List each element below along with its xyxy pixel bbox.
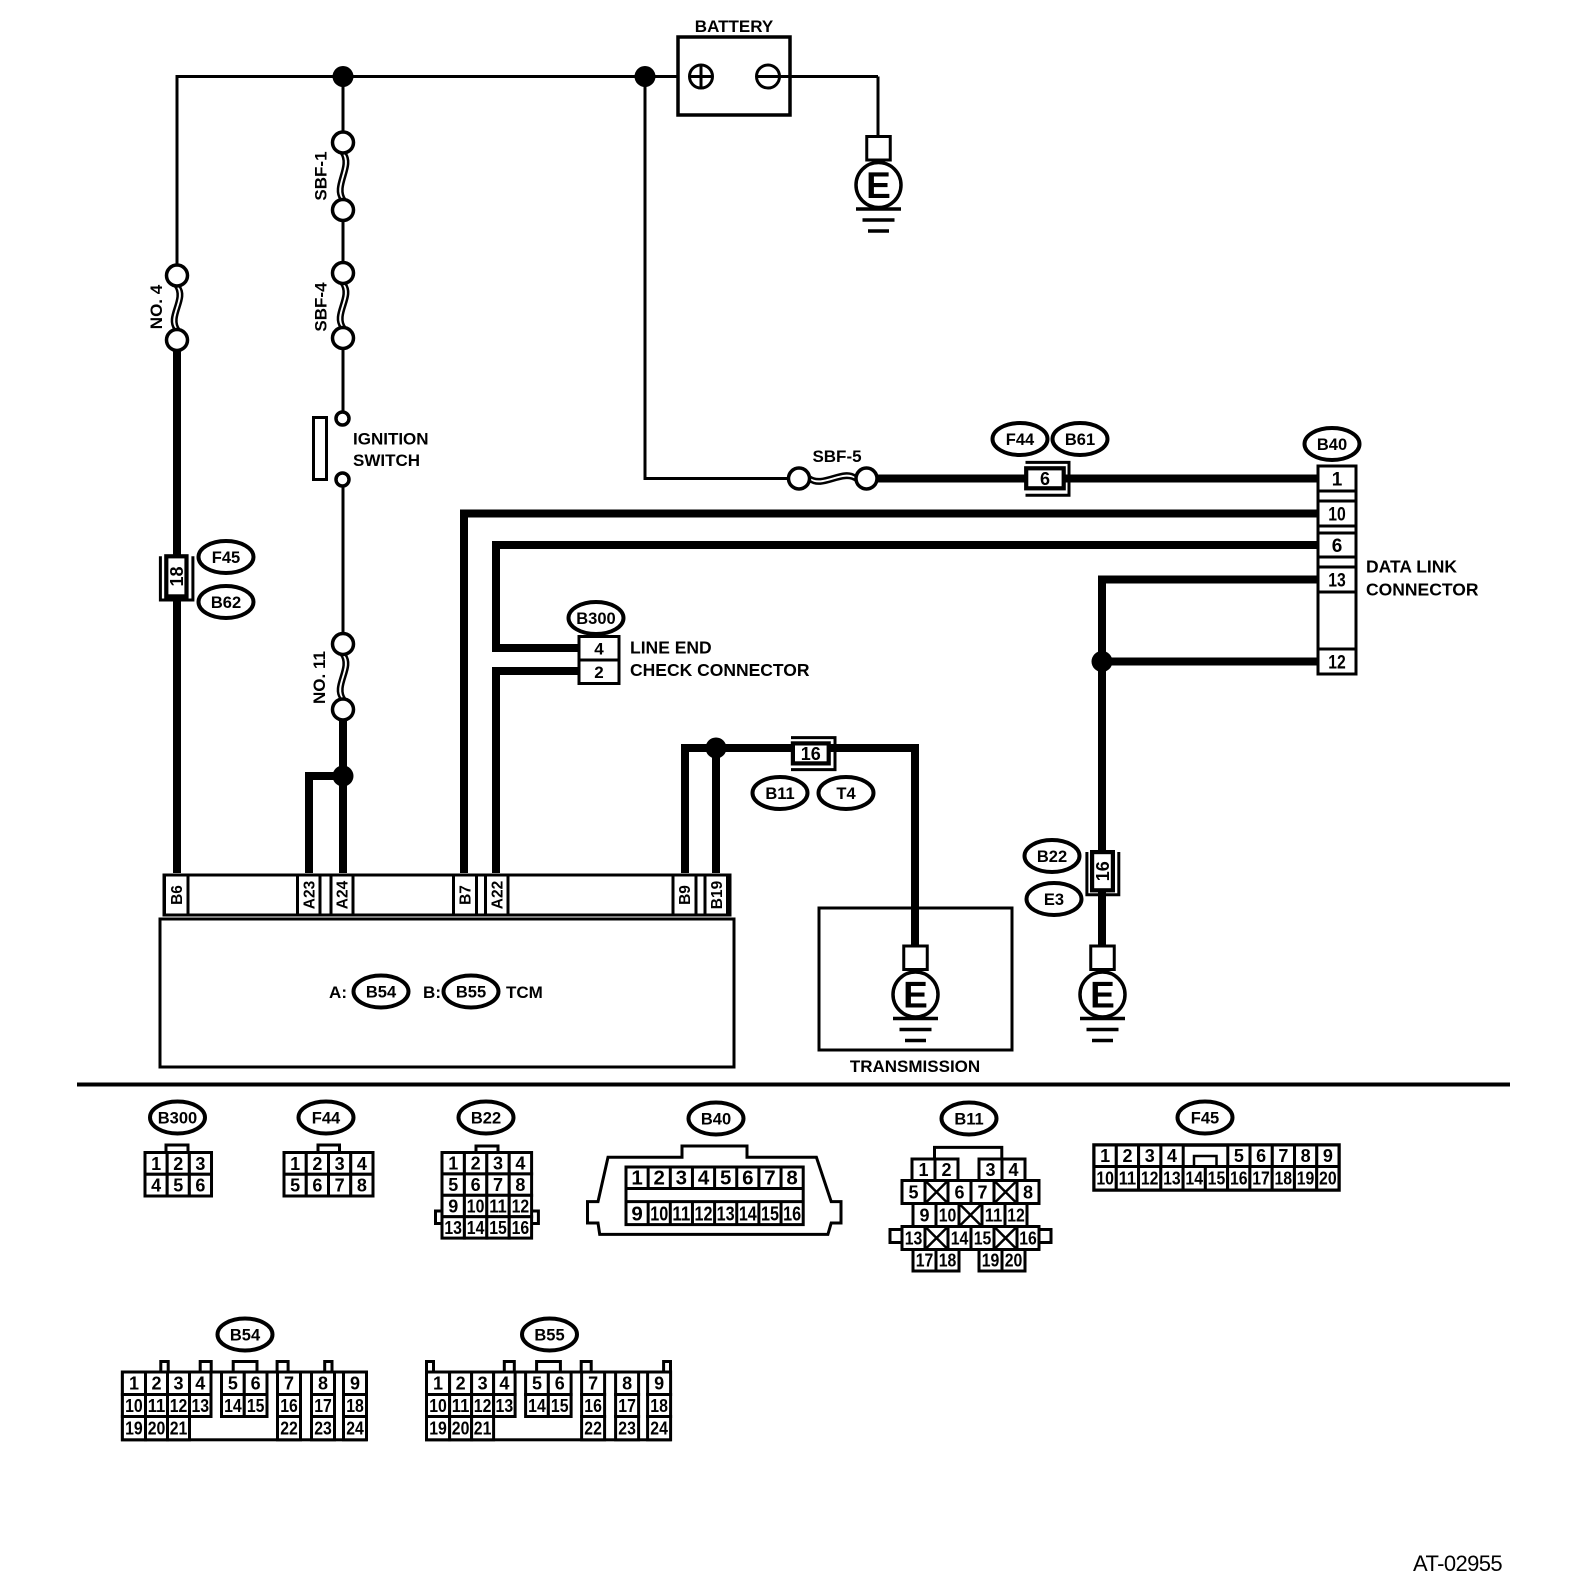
label B11 pinout	[942, 1103, 997, 1135]
svg-text:2: 2	[1122, 1146, 1132, 1166]
svg-text:B9: B9	[677, 885, 694, 905]
junction node at ignition branch	[333, 66, 354, 87]
svg-text:B22: B22	[1037, 848, 1067, 866]
svg-text:17: 17	[1252, 1169, 1270, 1189]
fuse SBF-5	[789, 447, 878, 489]
label B300	[569, 602, 624, 634]
svg-text:TCM: TCM	[506, 983, 543, 1002]
svg-text:A23: A23	[302, 880, 319, 909]
svg-text:14: 14	[1185, 1169, 1203, 1189]
svg-text:10: 10	[1096, 1169, 1114, 1189]
svg-text:5: 5	[720, 1167, 731, 1190]
svg-text:B40: B40	[1317, 436, 1347, 454]
TCM pin A24	[331, 875, 353, 915]
svg-text:6: 6	[555, 1374, 565, 1394]
svg-text:10: 10	[467, 1196, 485, 1216]
svg-text:B:: B:	[423, 983, 441, 1002]
svg-text:F44: F44	[1006, 431, 1035, 449]
svg-text:1: 1	[290, 1154, 300, 1174]
svg-text:13: 13	[905, 1228, 923, 1248]
svg-text:16: 16	[584, 1396, 602, 1416]
svg-text:12: 12	[474, 1396, 492, 1416]
wire ignition switch to fuse NO.11	[342, 485, 345, 635]
svg-text:E: E	[903, 975, 928, 1016]
svg-text:16: 16	[280, 1396, 298, 1416]
svg-text:4: 4	[357, 1154, 367, 1174]
label TCM designators	[329, 983, 543, 1002]
svg-text:9: 9	[448, 1196, 458, 1216]
svg-text:11: 11	[452, 1396, 470, 1416]
svg-text:BATTERY: BATTERY	[695, 17, 774, 36]
svg-text:14: 14	[951, 1228, 969, 1248]
connector pass-through 18 (F45/B62)	[160, 556, 193, 600]
svg-text:5: 5	[908, 1182, 918, 1202]
svg-text:1: 1	[1100, 1146, 1110, 1166]
svg-text:B300: B300	[576, 610, 615, 628]
svg-text:14: 14	[467, 1218, 485, 1238]
svg-text:2: 2	[151, 1374, 161, 1394]
svg-text:3: 3	[676, 1167, 687, 1190]
label B11	[753, 777, 808, 809]
connector pinout B11	[890, 1147, 1051, 1271]
svg-text:12: 12	[1328, 653, 1346, 674]
svg-text:11: 11	[489, 1196, 507, 1216]
svg-text:7: 7	[335, 1176, 345, 1196]
connector pinout F45	[1094, 1145, 1339, 1190]
wire SBF-5 to B40 pin 1 (thick)	[877, 475, 1320, 483]
svg-text:7: 7	[493, 1175, 503, 1195]
svg-text:B54: B54	[230, 1327, 261, 1345]
svg-text:6: 6	[1332, 536, 1343, 557]
svg-text:21: 21	[474, 1419, 492, 1439]
wire B40 pin 6 to B300 pin 4 (thick)	[496, 545, 1320, 648]
fuse SBF-1	[312, 132, 354, 221]
svg-text:3: 3	[195, 1154, 205, 1174]
fuse NO.4	[147, 265, 188, 351]
svg-text:A22: A22	[490, 881, 507, 909]
connector B300 line end check connector	[579, 637, 619, 684]
svg-text:9: 9	[919, 1205, 929, 1225]
svg-text:5: 5	[1234, 1146, 1244, 1166]
svg-text:23: 23	[314, 1419, 332, 1439]
svg-text:18: 18	[1274, 1169, 1292, 1189]
svg-text:15: 15	[489, 1218, 507, 1238]
svg-text:8: 8	[357, 1176, 367, 1196]
junction node A23/A24 split	[333, 766, 354, 787]
svg-text:17: 17	[314, 1396, 332, 1416]
TCM pin B6	[165, 875, 189, 915]
svg-text:10: 10	[650, 1203, 668, 1226]
wire B22 pin 16 to ground E3 (thick)	[1098, 890, 1106, 948]
label F44 pinout	[299, 1102, 354, 1134]
svg-text:14: 14	[739, 1203, 757, 1226]
svg-text:13: 13	[717, 1203, 735, 1226]
svg-text:15: 15	[551, 1396, 569, 1416]
svg-text:6: 6	[251, 1374, 261, 1394]
wire left branch down to fuse NO.4	[176, 75, 179, 266]
svg-text:9: 9	[631, 1203, 642, 1226]
svg-text:4: 4	[151, 1176, 161, 1196]
fuse SBF-4	[312, 263, 354, 349]
junction node at battery + drop	[635, 66, 656, 87]
svg-text:B54: B54	[366, 984, 397, 1002]
svg-text:LINE END: LINE END	[630, 638, 712, 658]
svg-text:23: 23	[618, 1419, 636, 1439]
svg-text:11: 11	[985, 1205, 1003, 1225]
wire B40 pin 13 down to connector B22 pin 16 (thick)	[1102, 580, 1320, 853]
svg-text:F44: F44	[312, 1110, 341, 1128]
wire battery - to ground E	[877, 77, 880, 141]
TCM pin B19	[705, 875, 728, 915]
svg-text:16: 16	[801, 744, 821, 764]
svg-text:16: 16	[1230, 1169, 1248, 1189]
svg-text:A24: A24	[335, 880, 352, 909]
svg-text:1: 1	[151, 1154, 161, 1174]
svg-text:10: 10	[939, 1205, 957, 1225]
svg-text:E: E	[1090, 975, 1115, 1016]
svg-text:B19: B19	[709, 880, 726, 909]
svg-text:1: 1	[448, 1154, 458, 1174]
svg-text:10: 10	[429, 1396, 447, 1416]
svg-text:19: 19	[1297, 1169, 1315, 1189]
svg-text:12: 12	[1141, 1169, 1159, 1189]
svg-text:B40: B40	[701, 1111, 731, 1129]
svg-text:B55: B55	[456, 984, 486, 1002]
label B22 pinout	[459, 1102, 514, 1134]
svg-text:F45: F45	[1191, 1110, 1219, 1128]
svg-text:5: 5	[228, 1374, 238, 1394]
ground E (transmission)	[893, 946, 938, 1041]
svg-text:NO. 4: NO. 4	[147, 284, 166, 329]
svg-text:15: 15	[974, 1228, 992, 1248]
TCM pin B9	[673, 875, 696, 915]
svg-text:B300: B300	[158, 1110, 197, 1128]
svg-text:14: 14	[528, 1396, 546, 1416]
label B55 pinout	[522, 1319, 577, 1351]
wire NO.4 to TCM pin B6 (thick)	[173, 349, 181, 873]
svg-text:IGNITION: IGNITION	[353, 430, 429, 449]
label B54	[354, 976, 409, 1008]
junction node B40 pin12/13 split	[1092, 651, 1113, 672]
label DATA LINK CONNECTOR	[1366, 557, 1479, 600]
connector pass-through 16 (B22/E3)	[1087, 852, 1119, 895]
svg-text:19: 19	[982, 1251, 1000, 1271]
connector pass-through 6 (F44/B61)	[1026, 462, 1070, 495]
svg-text:B6: B6	[169, 885, 186, 905]
svg-text:21: 21	[170, 1419, 188, 1439]
svg-text:TRANSMISSION: TRANSMISSION	[850, 1057, 980, 1076]
svg-text:15: 15	[761, 1203, 779, 1226]
svg-text:1: 1	[1332, 470, 1343, 491]
svg-text:20: 20	[148, 1419, 166, 1439]
svg-text:A:: A:	[329, 983, 347, 1002]
svg-text:6: 6	[1256, 1146, 1266, 1166]
svg-text:13: 13	[191, 1396, 209, 1416]
svg-text:9: 9	[1323, 1146, 1333, 1166]
svg-text:B62: B62	[211, 594, 241, 612]
svg-text:SWITCH: SWITCH	[353, 451, 420, 470]
connector pinout B300	[145, 1145, 212, 1196]
connector pinout B55	[427, 1362, 671, 1440]
svg-text:4: 4	[515, 1154, 525, 1174]
svg-text:22: 22	[584, 1419, 602, 1439]
svg-text:2: 2	[456, 1374, 466, 1394]
svg-text:7: 7	[284, 1374, 294, 1394]
svg-text:5: 5	[290, 1176, 300, 1196]
label B61	[1053, 423, 1108, 455]
svg-text:24: 24	[346, 1419, 364, 1439]
svg-text:17: 17	[618, 1396, 636, 1416]
svg-text:22: 22	[280, 1419, 298, 1439]
svg-text:3: 3	[478, 1374, 488, 1394]
svg-text:8: 8	[1023, 1182, 1033, 1202]
label F45 pinout	[1178, 1102, 1233, 1134]
svg-text:5: 5	[448, 1175, 458, 1195]
svg-text:1: 1	[433, 1374, 443, 1394]
wire junction to TCM pin B19 (thick)	[712, 748, 720, 873]
TCM pin A22	[486, 875, 509, 915]
svg-text:8: 8	[1301, 1146, 1311, 1166]
connector pinout F44	[284, 1145, 373, 1196]
svg-text:18: 18	[939, 1251, 957, 1271]
wire SBF-4 to ignition switch	[342, 347, 345, 411]
label F44	[993, 423, 1048, 455]
svg-text:20: 20	[1319, 1169, 1337, 1189]
svg-text:4: 4	[594, 639, 604, 658]
junction node B9/B19 split	[706, 738, 727, 759]
wire B40 pin 10 to TCM pin B7 (thick)	[464, 514, 1320, 874]
svg-text:12: 12	[695, 1203, 713, 1226]
svg-text:B61: B61	[1065, 431, 1095, 449]
svg-text:18: 18	[346, 1396, 364, 1416]
svg-text:CHECK CONNECTOR: CHECK CONNECTOR	[630, 660, 810, 680]
svg-text:2: 2	[941, 1160, 951, 1180]
TCM connector strip	[164, 875, 730, 915]
svg-text:24: 24	[650, 1419, 668, 1439]
svg-text:15: 15	[247, 1396, 265, 1416]
svg-text:18: 18	[650, 1396, 668, 1416]
svg-text:4: 4	[1008, 1160, 1018, 1180]
svg-text:6: 6	[312, 1176, 322, 1196]
transmission box	[819, 908, 1012, 1076]
svg-text:CONNECTOR: CONNECTOR	[1366, 580, 1479, 600]
label B40	[1305, 428, 1360, 460]
connector pass-through 16 (B11/T4)	[791, 738, 835, 770]
ignition switch	[314, 412, 429, 486]
svg-text:NO. 11: NO. 11	[310, 651, 329, 704]
svg-text:7: 7	[588, 1374, 598, 1394]
svg-text:15: 15	[1208, 1169, 1226, 1189]
svg-text:SBF-1: SBF-1	[312, 151, 331, 200]
label B54 pinout	[218, 1319, 273, 1351]
svg-text:4: 4	[698, 1167, 710, 1190]
svg-text:3: 3	[1145, 1146, 1155, 1166]
svg-text:4: 4	[499, 1374, 509, 1394]
svg-text:5: 5	[532, 1374, 542, 1394]
label B62	[199, 586, 254, 618]
svg-text:20: 20	[452, 1419, 470, 1439]
wire B300 pin 2 to TCM pin A22 (thick)	[496, 671, 581, 873]
svg-text:8: 8	[622, 1374, 632, 1394]
svg-text:13: 13	[1328, 571, 1346, 592]
svg-text:3: 3	[173, 1374, 183, 1394]
connector B40 pin column (data link connector)	[1318, 466, 1356, 674]
svg-text:6: 6	[195, 1176, 205, 1196]
svg-text:11: 11	[1119, 1169, 1137, 1189]
svg-text:11: 11	[148, 1396, 166, 1416]
separator line	[77, 1083, 1510, 1087]
battery	[678, 17, 878, 115]
svg-text:3: 3	[985, 1160, 995, 1180]
svg-text:7: 7	[1278, 1146, 1288, 1166]
svg-text:13: 13	[444, 1218, 462, 1238]
svg-text:9: 9	[654, 1374, 664, 1394]
svg-text:16: 16	[783, 1203, 801, 1226]
connector pinout B22	[436, 1146, 539, 1238]
svg-text:19: 19	[125, 1419, 143, 1439]
svg-text:7: 7	[977, 1182, 987, 1202]
svg-text:20: 20	[1005, 1251, 1023, 1271]
label B40 pinout	[689, 1103, 744, 1135]
svg-text:9: 9	[350, 1374, 360, 1394]
svg-text:4: 4	[1167, 1146, 1177, 1166]
svg-text:1: 1	[918, 1160, 928, 1180]
svg-text:19: 19	[429, 1419, 447, 1439]
wire NO.11 to TCM pin A24 (thick)	[339, 719, 347, 873]
svg-text:6: 6	[954, 1182, 964, 1202]
svg-text:B55: B55	[534, 1327, 564, 1345]
svg-text:AT-02955: AT-02955	[1413, 1551, 1502, 1576]
svg-text:16: 16	[512, 1218, 530, 1238]
fuse NO.11	[310, 634, 354, 721]
svg-text:16: 16	[1019, 1228, 1037, 1248]
svg-text:5: 5	[173, 1176, 183, 1196]
svg-text:1: 1	[631, 1167, 642, 1190]
svg-text:12: 12	[1007, 1205, 1025, 1225]
svg-text:B22: B22	[471, 1110, 501, 1128]
svg-text:B7: B7	[458, 885, 475, 905]
svg-text:17: 17	[916, 1251, 934, 1271]
svg-text:11: 11	[672, 1203, 690, 1226]
wire main feed from battery + to left branches	[177, 75, 690, 78]
svg-text:18: 18	[167, 566, 187, 586]
label LINE END CHECK CONNECTOR	[630, 638, 810, 681]
label E3	[1027, 883, 1082, 915]
svg-text:3: 3	[335, 1154, 345, 1174]
svg-text:2: 2	[594, 663, 603, 682]
svg-text:7: 7	[764, 1167, 775, 1190]
svg-text:8: 8	[515, 1175, 525, 1195]
label F45	[199, 541, 254, 573]
svg-text:B11: B11	[765, 785, 794, 803]
wire battery + down to fuse SBF-5	[645, 77, 790, 479]
svg-text:8: 8	[318, 1374, 328, 1394]
label B300 pinout	[150, 1102, 205, 1134]
svg-text:SBF-5: SBF-5	[812, 447, 861, 466]
wire SBF-1 to SBF-4	[342, 219, 345, 264]
label B22	[1025, 840, 1080, 872]
svg-text:3: 3	[493, 1154, 503, 1174]
TCM pin B7	[454, 875, 477, 915]
svg-text:8: 8	[786, 1167, 797, 1190]
svg-text:F45: F45	[212, 549, 240, 567]
svg-text:13: 13	[496, 1396, 514, 1416]
svg-text:2: 2	[312, 1154, 322, 1174]
connector pinout B40 (data link connector)	[588, 1146, 842, 1234]
wire ignition branch down to fuse SBF-1	[342, 75, 345, 133]
svg-text:DATA LINK: DATA LINK	[1366, 557, 1457, 577]
svg-text:2: 2	[654, 1167, 665, 1190]
svg-text:10: 10	[1328, 505, 1346, 526]
svg-text:B11: B11	[954, 1111, 983, 1129]
svg-text:14: 14	[224, 1396, 242, 1416]
svg-text:2: 2	[173, 1154, 183, 1174]
svg-text:12: 12	[170, 1396, 188, 1416]
svg-text:T4: T4	[836, 785, 856, 803]
svg-text:1: 1	[129, 1374, 139, 1394]
svg-text:16: 16	[1093, 861, 1113, 881]
svg-text:SBF-4: SBF-4	[312, 282, 331, 332]
TCM box	[160, 919, 734, 1067]
wire TCM pin B9 through connector 16 to transmission ground (thick)	[685, 748, 915, 948]
svg-text:6: 6	[471, 1175, 481, 1195]
label T4	[819, 777, 874, 809]
svg-text:12: 12	[512, 1196, 530, 1216]
wire junction to B40 pin 12 (thick)	[1102, 658, 1320, 666]
svg-text:4: 4	[195, 1374, 205, 1394]
label B55	[444, 976, 499, 1008]
svg-text:2: 2	[471, 1154, 481, 1174]
svg-text:10: 10	[125, 1396, 143, 1416]
svg-text:6: 6	[742, 1167, 753, 1190]
svg-text:E: E	[866, 165, 891, 206]
TCM pin A23	[298, 875, 321, 915]
connector pinout B54	[122, 1362, 366, 1440]
svg-text:6: 6	[1040, 469, 1050, 489]
wire branch to TCM pin A23 (thick)	[309, 776, 343, 873]
ground E (E3)	[1080, 946, 1125, 1041]
ground E (battery)	[856, 137, 901, 232]
svg-text:E3: E3	[1044, 891, 1064, 909]
svg-text:13: 13	[1163, 1169, 1181, 1189]
